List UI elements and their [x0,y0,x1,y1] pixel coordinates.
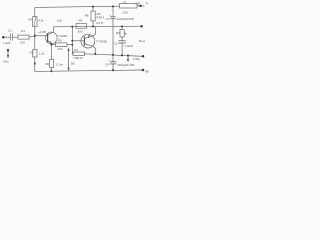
svg-text:100: 100 [58,47,63,51]
svg-text:2200мкФ×16В: 2200мкФ×16В [117,63,134,67]
svg-text:1,1мкФ: 1,1мкФ [124,44,133,48]
svg-text:1 мкФ: 1 мкФ [3,41,10,45]
svg-text:ГТ403Б: ГТ403Б [96,39,107,43]
svg-text:150: 150 [20,41,25,45]
svg-text:-9В: -9В [145,70,149,74]
svg-text:П1: П1 [123,0,127,4]
svg-text:2200мкФ×16В: 2200мкФ×16В [117,17,134,21]
svg-text:4,3к: 4,3к [38,19,44,23]
svg-text:ПЭВ-10: ПЭВ-10 [74,56,84,60]
svg-text:R8: R8 [85,13,89,17]
svg-text:+1В: +1В [56,18,61,22]
svg-text:1 Ом: 1 Ом [56,62,63,66]
svg-text:300: 300 [78,30,83,34]
svg-text:R9: R9 [116,31,120,35]
svg-text:C4: C4 [105,63,109,67]
svg-text:4,5 В: 4,5 В [96,21,103,25]
svg-text:0,5А: 0,5А [122,10,128,14]
svg-text:ГТ404Б: ГТ404Б [57,34,68,38]
svg-text:R7: R7 [74,48,78,52]
svg-text:C1: C1 [8,29,12,33]
svg-text:C2: C2 [106,17,110,21]
svg-text:5В: 5В [71,61,75,65]
svg-text:ПЭВ-3: ПЭВ-3 [96,16,105,20]
svg-text:1,2к: 1,2к [39,52,45,56]
svg-text:Общ: Общ [3,61,8,64]
svg-text:R5: R5 [58,39,62,43]
svg-text:C3: C3 [114,42,118,46]
svg-text:R3: R3 [30,51,34,55]
svg-text:R4: R4 [79,19,83,23]
svg-text:R2: R2 [28,18,32,22]
svg-text:Общ: Общ [133,57,140,61]
svg-text:160: 160 [96,12,101,16]
svg-text:+9В: +9В [134,2,140,6]
svg-text:+0,9В: +0,9В [38,30,46,34]
svg-text:R6: R6 [45,62,49,66]
svg-text:R1: R1 [21,29,25,33]
svg-text:Вых: Вых [139,39,145,43]
